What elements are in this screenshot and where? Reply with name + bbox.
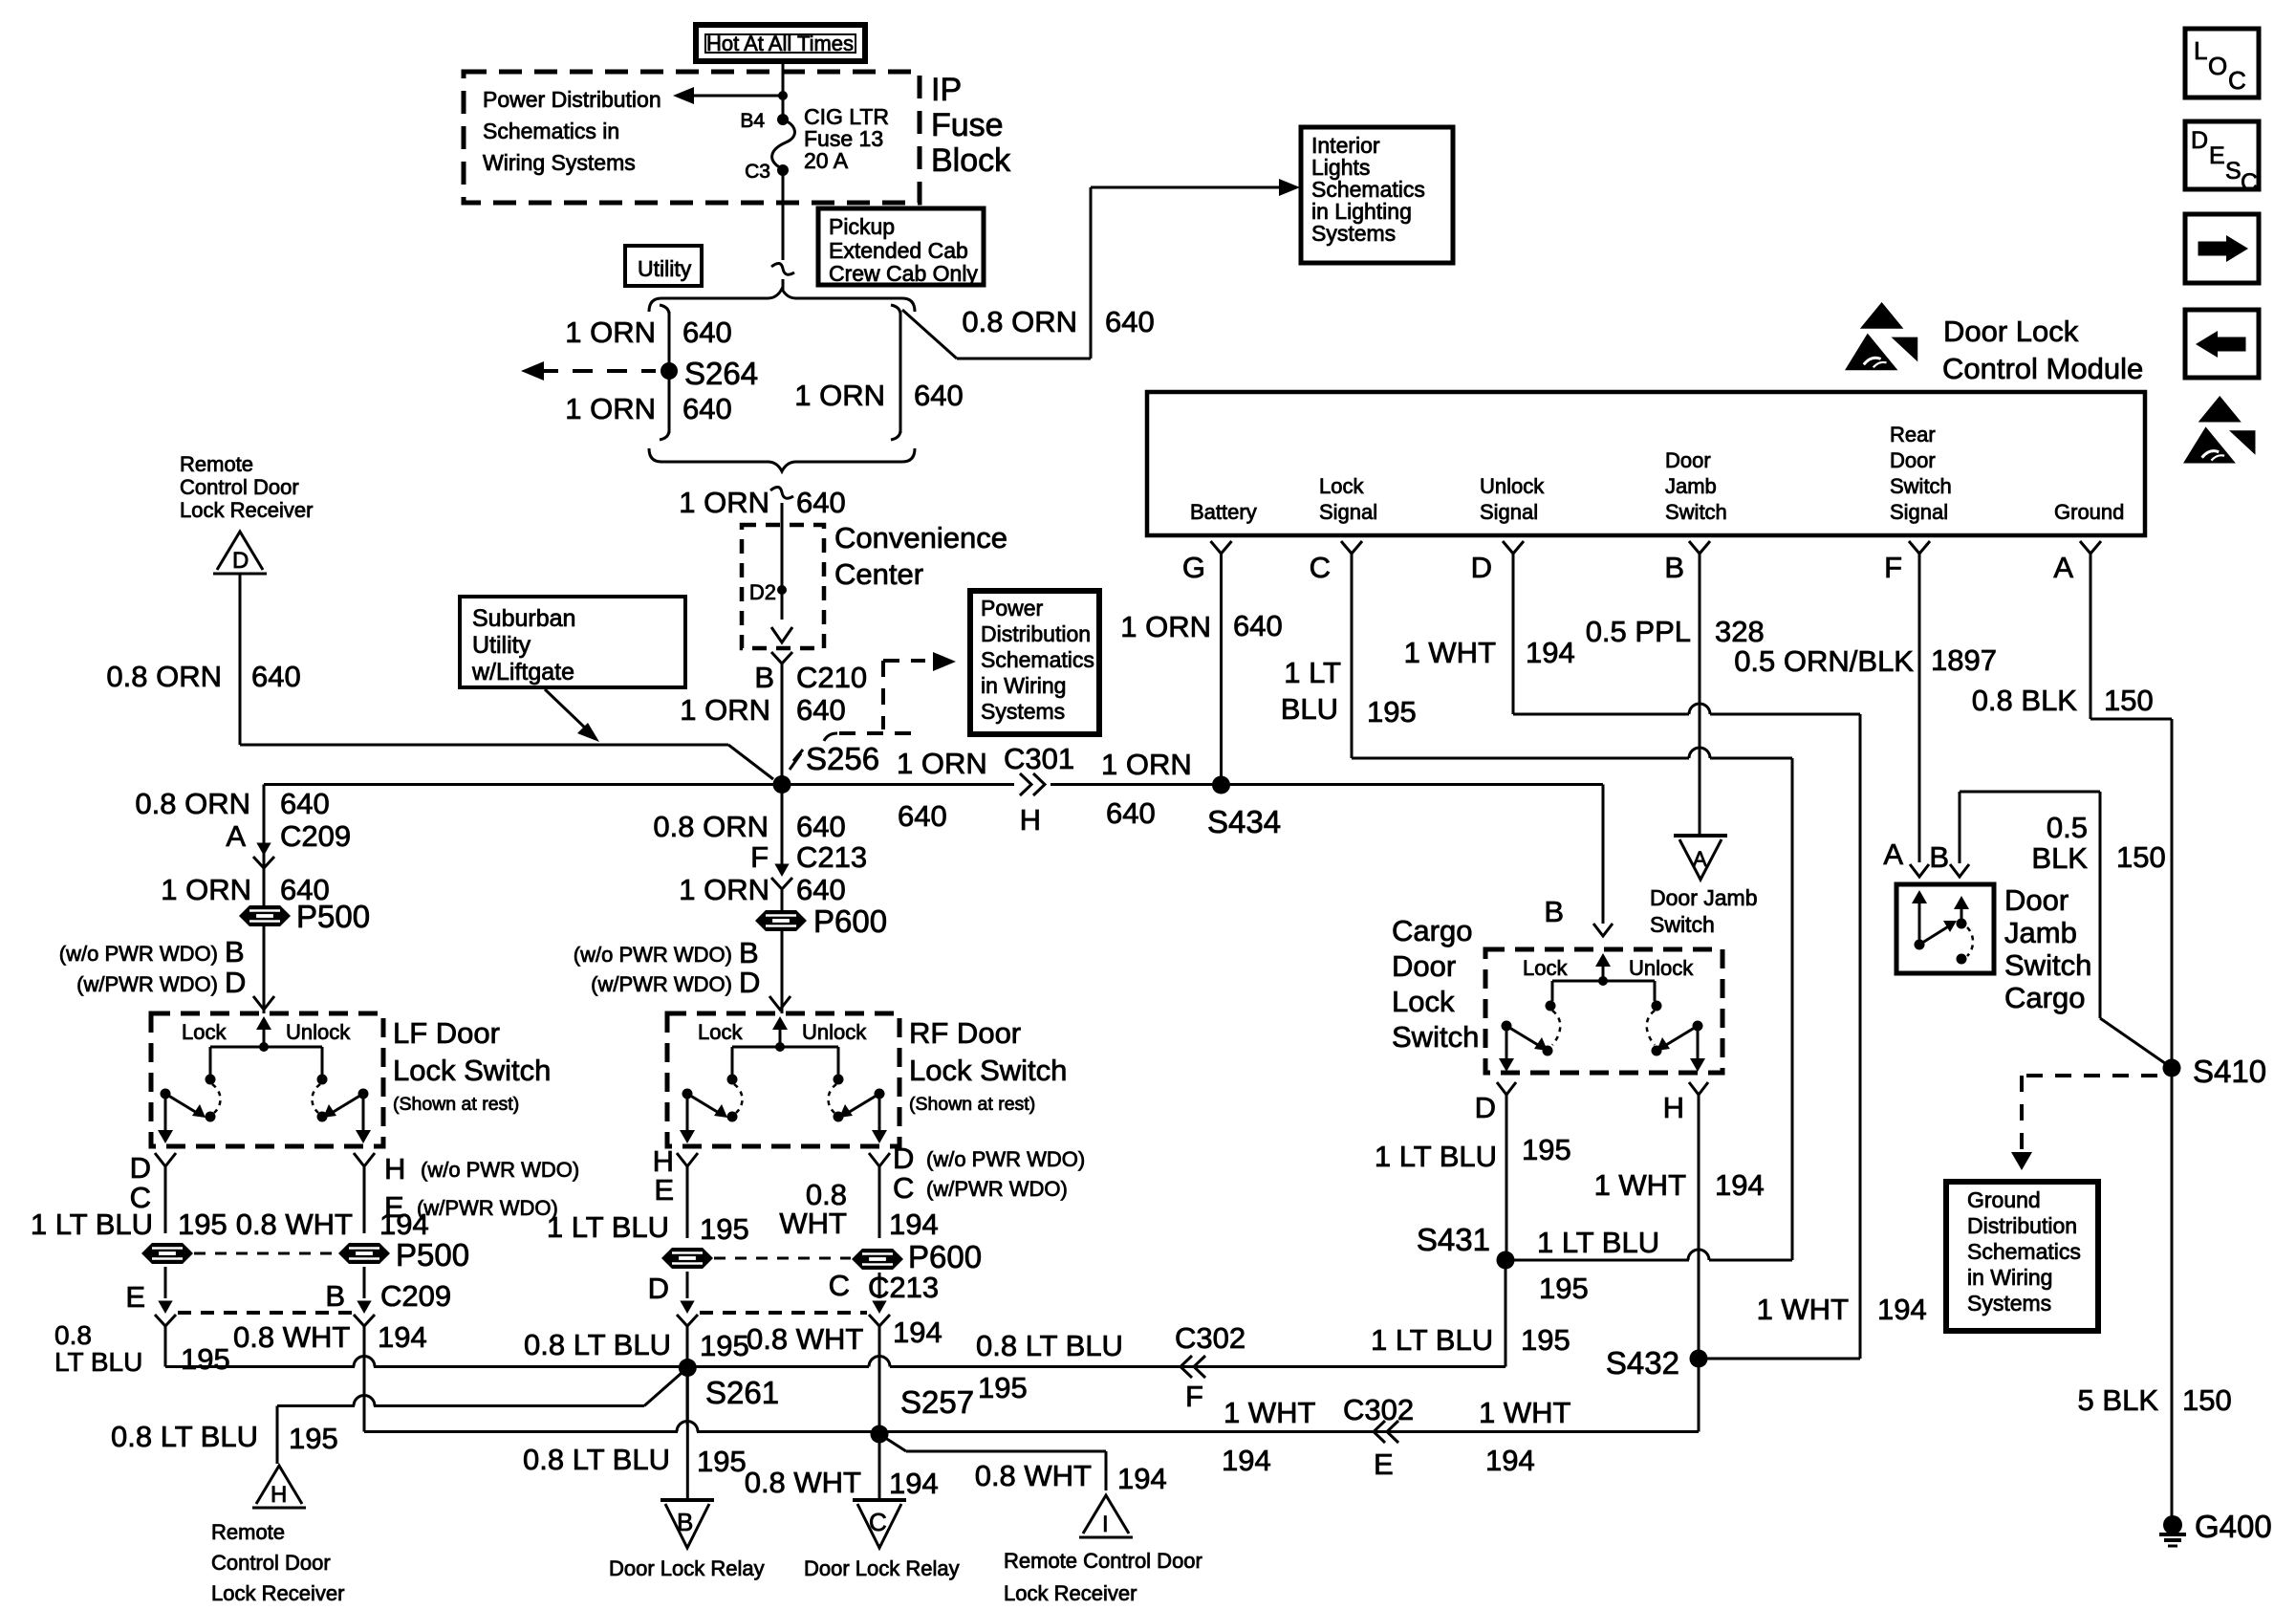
svg-text:20 A: 20 A	[804, 148, 849, 173]
svg-text:1 WHT: 1 WHT	[1224, 1396, 1316, 1429]
svg-text:0.8: 0.8	[54, 1320, 92, 1350]
svg-text:Schematics: Schematics	[1967, 1239, 2081, 1264]
svg-text:195: 195	[700, 1212, 749, 1246]
svg-text:640: 640	[1105, 305, 1155, 338]
svg-text:0.5 PPL: 0.5 PPL	[1586, 615, 1691, 648]
svg-text:0.8 WHT: 0.8 WHT	[236, 1207, 353, 1241]
svg-text:Switch: Switch	[2004, 948, 2091, 982]
svg-text:H: H	[1663, 1091, 1684, 1124]
svg-text:Utility: Utility	[472, 632, 531, 659]
svg-text:F: F	[750, 840, 769, 874]
svg-text:Remote Control Door: Remote Control Door	[1004, 1549, 1202, 1573]
svg-text:Pickup: Pickup	[829, 214, 895, 239]
svg-text:(w/PWR WDO): (w/PWR WDO)	[926, 1177, 1068, 1201]
svg-text:(w/PWR WDO): (w/PWR WDO)	[76, 972, 218, 996]
svg-text:P500: P500	[296, 899, 370, 934]
svg-text:194: 194	[1485, 1444, 1535, 1477]
svg-text:195: 195	[700, 1329, 749, 1362]
svg-text:LF Door: LF Door	[393, 1016, 500, 1050]
svg-text:194: 194	[1222, 1444, 1271, 1477]
svg-text:1 LT BLU: 1 LT BLU	[1537, 1226, 1659, 1259]
svg-text:(Shown at rest): (Shown at rest)	[393, 1094, 519, 1115]
svg-text:C: C	[2241, 169, 2258, 196]
svg-text:Rear: Rear	[1890, 423, 1936, 446]
svg-text:S: S	[2225, 158, 2242, 185]
svg-text:Schematics in: Schematics in	[483, 119, 619, 143]
svg-text:Crew Cab Only: Crew Cab Only	[829, 261, 978, 286]
svg-text:D: D	[648, 1272, 669, 1305]
svg-text:194: 194	[893, 1316, 942, 1349]
svg-text:194: 194	[1877, 1293, 1927, 1326]
svg-text:Lock Receiver: Lock Receiver	[1004, 1581, 1137, 1605]
svg-text:LT BLU: LT BLU	[54, 1347, 142, 1377]
svg-text:Signal: Signal	[1319, 500, 1377, 524]
svg-text:194: 194	[1526, 636, 1575, 669]
svg-text:P600: P600	[813, 903, 887, 939]
svg-text:195: 195	[978, 1371, 1028, 1404]
svg-text:Door: Door	[1890, 448, 1936, 472]
svg-text:0.8 BLK: 0.8 BLK	[1972, 684, 2078, 717]
svg-text:L: L	[2194, 36, 2207, 65]
svg-text:Switch: Switch	[1392, 1020, 1479, 1054]
svg-text:S257: S257	[900, 1384, 974, 1420]
svg-text:D: D	[1475, 1091, 1496, 1124]
svg-text:0.8 WHT: 0.8 WHT	[745, 1466, 861, 1499]
svg-text:Systems: Systems	[981, 699, 1065, 724]
svg-text:S264: S264	[684, 356, 758, 391]
svg-text:E: E	[125, 1280, 145, 1314]
svg-text:0.8 ORN: 0.8 ORN	[135, 787, 250, 820]
svg-text:Door Lock Relay: Door Lock Relay	[609, 1556, 765, 1580]
svg-text:A: A	[1883, 838, 1903, 871]
svg-text:1 ORN: 1 ORN	[1120, 610, 1211, 643]
svg-text:(w/PWR WDO): (w/PWR WDO)	[591, 972, 732, 996]
svg-text:(w/o PWR WDO): (w/o PWR WDO)	[421, 1158, 579, 1182]
svg-text:640: 640	[280, 787, 330, 820]
svg-text:C301: C301	[1004, 742, 1074, 775]
svg-text:Hot At All Times: Hot At All Times	[706, 32, 854, 55]
svg-text:C213: C213	[868, 1271, 939, 1304]
svg-text:S432: S432	[1606, 1345, 1679, 1381]
svg-text:Signal: Signal	[1480, 500, 1538, 524]
svg-text:B4: B4	[740, 110, 765, 132]
svg-text:(w/o PWR WDO): (w/o PWR WDO)	[59, 942, 218, 966]
svg-text:0.8 LT BLU: 0.8 LT BLU	[524, 1328, 671, 1361]
svg-text:150: 150	[2116, 840, 2166, 874]
svg-text:Center: Center	[834, 557, 923, 591]
svg-text:A: A	[1693, 847, 1707, 871]
svg-text:F: F	[1884, 551, 1902, 584]
svg-text:S256: S256	[806, 741, 879, 776]
svg-text:1 ORN: 1 ORN	[565, 315, 656, 349]
svg-text:Systems: Systems	[1311, 221, 1396, 246]
svg-text:Utility: Utility	[638, 256, 692, 281]
svg-text:Control Module: Control Module	[1942, 352, 2143, 385]
svg-text:w/Liftgate: w/Liftgate	[471, 659, 574, 685]
svg-text:1 LT BLU: 1 LT BLU	[1375, 1140, 1497, 1173]
svg-text:C: C	[869, 1508, 887, 1536]
svg-text:D2: D2	[749, 580, 776, 604]
svg-text:Door Lock: Door Lock	[1943, 315, 2079, 348]
svg-text:C: C	[1310, 551, 1331, 584]
svg-text:(Shown at rest): (Shown at rest)	[909, 1094, 1035, 1115]
svg-text:640: 640	[796, 486, 846, 519]
svg-text:150: 150	[2182, 1383, 2232, 1417]
svg-text:640: 640	[796, 873, 846, 906]
svg-text:5 BLK: 5 BLK	[2078, 1383, 2159, 1417]
svg-text:Lock Receiver: Lock Receiver	[180, 498, 313, 522]
svg-text:1 ORN: 1 ORN	[897, 747, 987, 780]
svg-text:Remote: Remote	[180, 452, 253, 476]
svg-text:Door: Door	[2004, 883, 2069, 917]
svg-text:Suburban: Suburban	[472, 605, 575, 632]
svg-text:1 WHT: 1 WHT	[1757, 1293, 1850, 1326]
svg-text:Lock: Lock	[698, 1020, 743, 1044]
svg-text:Lock Switch: Lock Switch	[393, 1054, 551, 1087]
svg-text:WHT: WHT	[779, 1207, 847, 1240]
svg-text:C210: C210	[796, 661, 867, 694]
svg-text:D: D	[130, 1151, 151, 1185]
svg-text:B: B	[1929, 840, 1949, 874]
svg-text:Wiring Systems: Wiring Systems	[483, 150, 636, 175]
svg-text:I: I	[1102, 1512, 1109, 1537]
svg-text:H: H	[271, 1482, 287, 1508]
svg-text:Power: Power	[981, 596, 1044, 620]
svg-text:B: B	[225, 935, 245, 968]
svg-text:Unlock: Unlock	[1480, 474, 1545, 498]
svg-text:195: 195	[697, 1445, 747, 1478]
svg-text:1 ORN: 1 ORN	[679, 486, 769, 519]
svg-text:0.8 WHT: 0.8 WHT	[975, 1459, 1092, 1492]
svg-text:D: D	[225, 966, 246, 999]
svg-text:0.8 LT BLU: 0.8 LT BLU	[976, 1329, 1123, 1362]
svg-text:194: 194	[378, 1320, 427, 1354]
svg-text:150: 150	[2104, 684, 2154, 717]
svg-text:E: E	[1374, 1447, 1394, 1481]
svg-text:P500: P500	[396, 1237, 469, 1273]
svg-text:A: A	[226, 819, 246, 853]
svg-text:195: 195	[1521, 1323, 1570, 1357]
svg-text:Signal: Signal	[1890, 500, 1948, 524]
svg-text:640: 640	[796, 693, 846, 727]
svg-text:Door Lock Relay: Door Lock Relay	[804, 1556, 960, 1580]
svg-text:194: 194	[889, 1207, 939, 1241]
svg-text:640: 640	[914, 379, 964, 412]
svg-text:C302: C302	[1343, 1393, 1414, 1426]
svg-text:194: 194	[379, 1207, 429, 1241]
svg-text:0.8 ORN: 0.8 ORN	[962, 305, 1077, 338]
svg-text:Lock Receiver: Lock Receiver	[211, 1581, 344, 1605]
svg-text:H: H	[384, 1152, 405, 1186]
svg-text:D: D	[739, 966, 760, 999]
svg-text:H: H	[1020, 803, 1041, 837]
svg-text:Extended Cab: Extended Cab	[829, 238, 968, 263]
svg-text:B: B	[677, 1508, 693, 1536]
svg-text:(w/PWR WDO): (w/PWR WDO)	[417, 1196, 558, 1220]
svg-text:Ground: Ground	[1967, 1187, 2041, 1212]
svg-text:0.8 LT BLU: 0.8 LT BLU	[523, 1443, 670, 1476]
svg-text:F: F	[1185, 1380, 1203, 1413]
svg-text:640: 640	[682, 392, 732, 425]
svg-text:Lock Switch: Lock Switch	[909, 1054, 1067, 1087]
svg-text:Cargo: Cargo	[2004, 981, 2085, 1014]
svg-text:0.8 ORN: 0.8 ORN	[653, 810, 769, 843]
svg-text:195: 195	[181, 1342, 230, 1376]
svg-text:in Wiring: in Wiring	[1967, 1265, 2052, 1290]
svg-text:Switch: Switch	[1665, 500, 1727, 524]
svg-text:C209: C209	[380, 1279, 451, 1313]
svg-text:195: 195	[1522, 1133, 1571, 1166]
svg-text:1897: 1897	[1931, 643, 1997, 677]
svg-text:S261: S261	[705, 1375, 779, 1410]
svg-text:Jamb: Jamb	[2004, 916, 2077, 949]
svg-text:1 ORN: 1 ORN	[565, 392, 656, 425]
svg-text:Battery: Battery	[1190, 500, 1257, 524]
svg-text:C: C	[829, 1269, 850, 1302]
svg-text:0.8 ORN: 0.8 ORN	[106, 660, 222, 693]
svg-text:O: O	[2208, 52, 2227, 80]
svg-text:Door: Door	[1392, 949, 1456, 983]
svg-text:0.5: 0.5	[2047, 811, 2088, 844]
svg-text:Schematics: Schematics	[981, 647, 1094, 672]
svg-text:G: G	[1182, 551, 1205, 584]
svg-text:194: 194	[1715, 1168, 1765, 1202]
svg-text:1 ORN: 1 ORN	[794, 379, 885, 412]
svg-text:195: 195	[178, 1207, 227, 1241]
svg-text:0.8 WHT: 0.8 WHT	[747, 1322, 863, 1356]
svg-text:1 WHT: 1 WHT	[1404, 636, 1497, 669]
svg-text:Unlock: Unlock	[802, 1020, 867, 1044]
svg-text:G400: G400	[2195, 1509, 2272, 1544]
svg-text:Jamb: Jamb	[1665, 474, 1717, 498]
svg-text:B: B	[1544, 895, 1564, 928]
svg-text:in Wiring: in Wiring	[981, 673, 1066, 698]
svg-text:C3: C3	[745, 161, 770, 183]
svg-text:D: D	[1471, 551, 1492, 584]
svg-text:Unlock: Unlock	[286, 1020, 351, 1044]
svg-text:195: 195	[1367, 695, 1417, 729]
svg-text:RF Door: RF Door	[909, 1016, 1021, 1050]
svg-text:195: 195	[289, 1422, 338, 1455]
svg-text:Control Door: Control Door	[180, 475, 299, 499]
svg-text:Lock: Lock	[1319, 474, 1364, 498]
svg-text:D: D	[893, 1142, 914, 1175]
svg-text:(w/o PWR WDO): (w/o PWR WDO)	[574, 943, 732, 967]
svg-text:1 ORN: 1 ORN	[680, 693, 770, 727]
svg-text:S431: S431	[1417, 1222, 1490, 1257]
svg-text:1 WHT: 1 WHT	[1479, 1396, 1571, 1429]
svg-text:0.5 ORN/BLK: 0.5 ORN/BLK	[1734, 644, 1914, 678]
svg-text:Switch: Switch	[1890, 474, 1952, 498]
svg-text:640: 640	[1233, 609, 1283, 642]
svg-text:C302: C302	[1175, 1321, 1245, 1355]
svg-text:1 ORN: 1 ORN	[161, 873, 251, 906]
svg-text:1 LT BLU: 1 LT BLU	[1371, 1323, 1493, 1357]
svg-text:0.8 LT BLU: 0.8 LT BLU	[111, 1420, 258, 1453]
svg-text:B: B	[739, 936, 759, 969]
svg-text:P600: P600	[908, 1239, 982, 1274]
svg-text:640: 640	[682, 315, 732, 349]
svg-text:C209: C209	[280, 819, 351, 853]
svg-text:D: D	[2191, 127, 2208, 154]
svg-text:Unlock: Unlock	[1629, 956, 1694, 980]
svg-text:194: 194	[889, 1467, 939, 1500]
svg-text:B: B	[325, 1279, 345, 1313]
svg-text:BLU: BLU	[1281, 692, 1338, 726]
svg-text:BLK: BLK	[2031, 841, 2088, 875]
svg-text:S410: S410	[2193, 1054, 2266, 1089]
svg-text:194: 194	[1117, 1462, 1167, 1495]
svg-text:1 LT BLU: 1 LT BLU	[31, 1207, 153, 1241]
svg-text:Power Distribution: Power Distribution	[483, 87, 661, 112]
svg-text:Lock: Lock	[1392, 985, 1455, 1018]
svg-text:C: C	[2228, 66, 2246, 95]
svg-text:C: C	[893, 1171, 914, 1205]
svg-text:A: A	[2053, 551, 2073, 584]
svg-text:B: B	[1664, 551, 1684, 584]
svg-text:Control Door: Control Door	[211, 1551, 331, 1575]
svg-text:Door: Door	[1665, 448, 1711, 472]
svg-text:D: D	[232, 548, 249, 574]
svg-text:Systems: Systems	[1967, 1291, 2051, 1316]
svg-text:1 LT BLU: 1 LT BLU	[547, 1210, 669, 1244]
svg-text:IP: IP	[931, 72, 962, 108]
svg-text:B: B	[754, 661, 774, 694]
svg-text:Door Jamb: Door Jamb	[1650, 885, 1757, 910]
svg-text:Cargo: Cargo	[1392, 914, 1472, 947]
svg-text:Lock: Lock	[1523, 956, 1568, 980]
svg-text:1 ORN: 1 ORN	[679, 873, 769, 906]
svg-text:Distribution: Distribution	[1967, 1213, 2077, 1238]
svg-text:328: 328	[1715, 615, 1765, 648]
svg-text:195: 195	[1539, 1272, 1589, 1305]
svg-text:640: 640	[1106, 796, 1156, 830]
svg-text:640: 640	[898, 799, 947, 833]
svg-text:Block: Block	[931, 142, 1011, 179]
svg-text:S434: S434	[1207, 804, 1281, 839]
svg-text:Ground: Ground	[2054, 500, 2124, 524]
svg-text:Convenience: Convenience	[834, 521, 1007, 555]
svg-text:E: E	[2209, 142, 2225, 169]
svg-text:Fuse: Fuse	[931, 107, 1004, 143]
svg-text:640: 640	[251, 660, 301, 693]
svg-text:E: E	[654, 1173, 674, 1207]
svg-text:(w/o PWR WDO): (w/o PWR WDO)	[926, 1147, 1085, 1171]
svg-text:0.8 WHT: 0.8 WHT	[233, 1320, 350, 1354]
svg-text:1 ORN: 1 ORN	[1101, 748, 1192, 781]
svg-text:1 WHT: 1 WHT	[1594, 1168, 1687, 1202]
svg-text:640: 640	[796, 810, 846, 843]
svg-text:1 LT: 1 LT	[1284, 656, 1341, 689]
svg-text:C213: C213	[796, 840, 867, 874]
svg-text:Lock: Lock	[182, 1020, 227, 1044]
svg-text:Remote: Remote	[211, 1520, 285, 1544]
svg-text:Switch: Switch	[1650, 912, 1715, 937]
svg-text:Distribution: Distribution	[981, 621, 1091, 646]
